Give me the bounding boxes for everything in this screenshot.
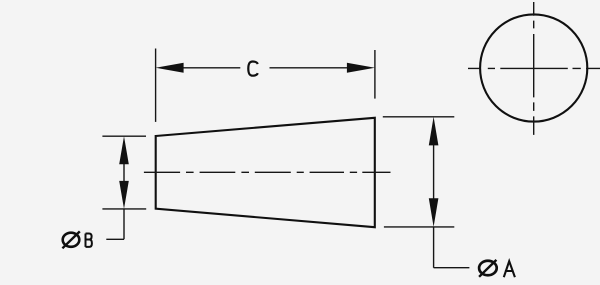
circle horizontal centerline — [468, 67, 600, 69]
dimension A extension line bottom — [384, 226, 454, 228]
label diameter symbol A — [479, 260, 497, 277]
dimension B leader — [106, 238, 124, 240]
dimension A leader — [434, 267, 470, 269]
label A — [504, 261, 515, 277]
dimension B arrowheads — [119, 136, 129, 209]
label diameter symbol B — [62, 231, 79, 248]
taper body outline — [156, 118, 375, 227]
dimension C arrowheads — [156, 63, 375, 73]
dimension A arrowheads — [429, 117, 439, 227]
dimension B line — [123, 163, 125, 239]
end-view circle — [480, 14, 587, 121]
taper centerline — [144, 171, 391, 173]
label C — [248, 62, 257, 76]
dimension A line — [433, 145, 435, 268]
dimension B extension line bottom — [102, 208, 146, 210]
label B — [86, 234, 92, 247]
dimension C extension line left — [155, 49, 157, 122]
dimension C extension line right — [374, 50, 376, 99]
dimension A extension line top — [383, 116, 455, 118]
dimension C line with arrows — [183, 67, 348, 69]
dimension B extension line top — [102, 135, 146, 137]
circle vertical centerline — [533, 2, 535, 135]
